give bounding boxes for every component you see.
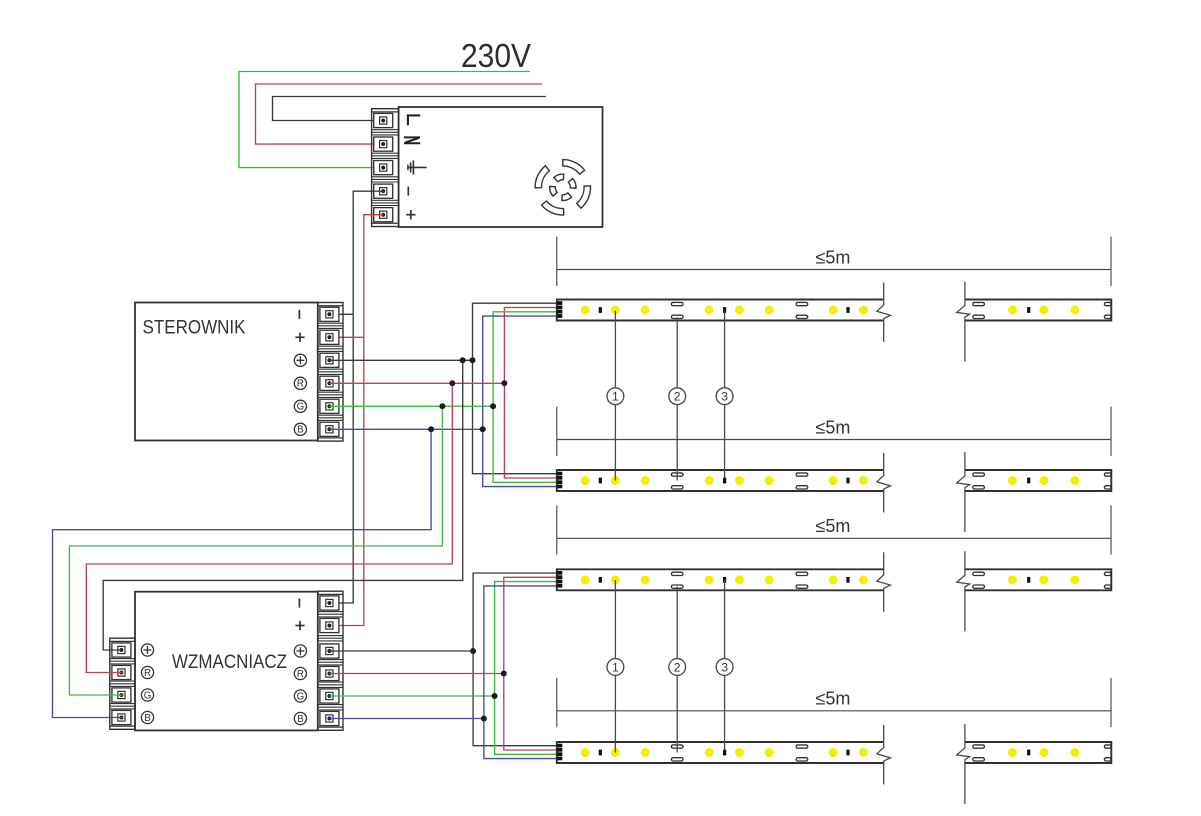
LED strip row 2 LED chip at x=709.2 bbox=[705, 476, 714, 485]
WZMACNIACZ left pin label R bbox=[141, 666, 153, 678]
LED strip row 4 segment 2 LED chip at x=1043.8 bbox=[1039, 748, 1048, 757]
WZMACNIACZ right terminal 6 screw cell bbox=[320, 711, 339, 725]
LED strip row 4 resistor at x=724.6 bbox=[723, 750, 726, 756]
dimension line max 5m for strip row 3 bbox=[557, 537, 1111, 539]
junction G wire dot A bbox=[439, 403, 445, 409]
LED strip row 1 cut point solder pads at x=677.2 bbox=[671, 302, 683, 305]
PSU cooling fan icon bbox=[563, 160, 585, 175]
LED strip row 1 resistor at x=724.6 bbox=[723, 307, 726, 313]
PSU pin label earth ground symbol bbox=[408, 166, 427, 168]
LED strip row 3 LED chip at x=833.2 bbox=[829, 575, 838, 584]
LED strip row 1 LED chip at x=863.4 bbox=[859, 306, 868, 315]
dimension line max 5m for strip row 2 bbox=[557, 439, 1111, 441]
LED strip row 2 segment 2 LED chip at x=1043.8 bbox=[1039, 476, 1048, 485]
LED strip row 3 segment 2 solder pads bbox=[973, 572, 985, 575]
amplifier WZMACNIACZ box bbox=[135, 592, 318, 731]
LED strip row 1 segment 2 LED chip at x=1012.5 bbox=[1008, 306, 1017, 315]
LED strip row 2 segment 2 LED chip at x=1074.8 bbox=[1070, 476, 1079, 485]
svg-text:≤5m: ≤5m bbox=[816, 689, 851, 709]
junction R wire dot A bbox=[449, 380, 455, 386]
svg-text:STEROWNIK: STEROWNIK bbox=[143, 318, 246, 339]
svg-text:G: G bbox=[144, 690, 152, 701]
LED strip row 2 resistor at x=848 bbox=[846, 478, 849, 484]
PSU pin label minus bbox=[407, 187, 409, 196]
svg-text:≤5m: ≤5m bbox=[816, 417, 851, 437]
LED strip row 4 segment 2 outline bbox=[965, 742, 1111, 763]
WZMACNIACZ right terminal block column bbox=[318, 591, 343, 730]
circled number 1 set 2 bbox=[607, 659, 624, 676]
LED strip row 1 LED chip at x=585.2 bbox=[581, 306, 590, 315]
LED strip row 2 segment 2 LED chip at x=1012.5 bbox=[1008, 476, 1017, 485]
WZMACNIACZ right pin label W circled plus bbox=[294, 645, 306, 657]
LED strip row 1 segment 2 end solder pads bbox=[1104, 302, 1111, 305]
wire PE green from 230V to PSU ground terminal bbox=[239, 72, 530, 168]
WZMACNIACZ right terminal 1 screw cell bbox=[320, 596, 339, 610]
LED strip row 2 resistor at x=724.6 bbox=[723, 478, 726, 484]
WZMACNIACZ right pin label minus bbox=[298, 599, 300, 608]
svg-text:≤5m: ≤5m bbox=[816, 247, 851, 267]
LED strip row 4 segment 2 resistor bbox=[1027, 750, 1030, 756]
LED strip row 1 LED chip at x=739.4 bbox=[735, 306, 744, 315]
junction W wire dot B bbox=[470, 357, 476, 363]
WZMACNIACZ left terminal block column bbox=[110, 638, 135, 729]
WZMACNIACZ left terminal 1 screw cell bbox=[112, 643, 131, 657]
LED strip row 3 LED chip at x=615.4 bbox=[611, 575, 620, 584]
LED strip row 1 input solder connector pads bbox=[557, 301, 562, 305]
STEROWNIK terminal 4 screw cell bbox=[320, 376, 339, 390]
WZMACNIACZ right pin label R bbox=[294, 667, 306, 679]
PSU terminal 2 screw cell bbox=[374, 137, 393, 151]
LED strip row 1 break symbol end of segment 1 bbox=[877, 283, 891, 343]
LED strip row 2 LED chip at x=833.2 bbox=[829, 476, 838, 485]
PSU terminal 4 screw cell bbox=[374, 184, 393, 198]
wire G green STEROWNIK to WZMACNIACZ input bbox=[69, 406, 442, 695]
wire B blue WZMACNIACZ output to strips 3 and 4 bbox=[329, 718, 484, 720]
STEROWNIK pin label plus bbox=[295, 336, 304, 338]
LED strip row 4 resistor at x=600.3 bbox=[599, 750, 602, 756]
LED strip row 1 segment 2 solder pads bbox=[973, 302, 985, 305]
wire N red from 230V to PSU terminal N bbox=[256, 84, 543, 144]
LED strip row 4 LED chip at x=709.2 bbox=[705, 748, 714, 757]
svg-text:≤5m: ≤5m bbox=[816, 516, 851, 536]
LED strip row 1 segment 2 resistor bbox=[1027, 307, 1030, 313]
PSU terminal 5 screw cell bbox=[374, 208, 393, 222]
LED strip row 3 LED chip at x=645.2 bbox=[641, 575, 650, 584]
LED strip row 2 LED chip at x=863.4 bbox=[859, 476, 868, 485]
STEROWNIK terminal 1 screw cell bbox=[320, 307, 339, 321]
LED strip row 2 break symbol end of segment 1 bbox=[877, 453, 891, 513]
LED strip row 2 cut point solder pads at x=801.9 bbox=[796, 473, 808, 476]
LED strip row 4 break symbol start of segment 2 bbox=[957, 724, 970, 804]
LED strip row 4 cut point solder pads at x=801.9 bbox=[796, 745, 808, 748]
LED strip row 2 segment 2 end solder pads bbox=[1104, 473, 1111, 476]
WZMACNIACZ left pin label B bbox=[141, 711, 153, 723]
LED strip row 4 LED chip at x=769.2 bbox=[765, 748, 774, 757]
LED strip row 4 segment 2 LED chip at x=1012.5 bbox=[1008, 748, 1017, 757]
LED strip row 1 segment 2 LED chip at x=1043.8 bbox=[1039, 306, 1048, 315]
LED strip row 3 input solder connector pads bbox=[557, 571, 562, 575]
PSU pin label N bbox=[404, 136, 420, 138]
power supply unit box bbox=[399, 107, 603, 227]
svg-text:B: B bbox=[144, 713, 151, 724]
LED strip row 1 LED chip at x=769.2 bbox=[765, 306, 774, 315]
dimension line max 5m for strip row 1 bbox=[557, 269, 1111, 271]
LED strip row 2 LED chip at x=585.2 bbox=[581, 476, 590, 485]
wire L black from 230V to PSU terminal L bbox=[273, 97, 547, 121]
svg-text:WZMACNIACZ: WZMACNIACZ bbox=[172, 652, 287, 673]
LED strip row 3 resistor at x=724.6 bbox=[723, 577, 726, 583]
wire W black WZMACNIACZ output to strips 3 and 4 bbox=[329, 650, 473, 652]
wire R red STEROWNIK output to strips 1 and 2 bbox=[329, 382, 504, 384]
LED strip row 4 segment 1 outline bbox=[557, 742, 884, 763]
LED strip row 3 break symbol end of segment 1 bbox=[877, 552, 891, 612]
LED strip row 1 segment 2 LED chip at x=1074.8 bbox=[1070, 306, 1079, 315]
LED strip row 2 LED chip at x=615.4 bbox=[611, 476, 620, 485]
STEROWNIK pin label R bbox=[294, 377, 306, 389]
svg-text:G: G bbox=[297, 691, 305, 702]
LED strip row 1 LED chip at x=833.2 bbox=[829, 306, 838, 315]
WZMACNIACZ right pin label B bbox=[294, 712, 306, 724]
LED strip row 2 LED chip at x=645.2 bbox=[641, 476, 650, 485]
svg-text:1: 1 bbox=[612, 660, 619, 674]
callout line 2 set 1 bbox=[676, 317, 678, 480]
LED strip row 2 LED chip at x=769.2 bbox=[765, 476, 774, 485]
LED strip row 2 segment 1 outline bbox=[557, 470, 884, 491]
LED strip row 1 LED chip at x=709.2 bbox=[705, 306, 714, 315]
wire G green STEROWNIK output to strips 1 and 2 bbox=[329, 405, 493, 407]
STEROWNIK terminal 3 screw cell bbox=[320, 353, 339, 367]
LED strip row 1 segment 1 outline bbox=[557, 300, 884, 321]
LED strip row 4 segment 2 end solder pads bbox=[1104, 745, 1111, 748]
wire minus black PSU to STEROWNIK and WZMACNIACZ bbox=[329, 191, 383, 603]
LED strip row 3 segment 2 LED chip at x=1043.8 bbox=[1039, 575, 1048, 584]
wire W black STEROWNIK to WZMACNIACZ input bbox=[103, 360, 463, 650]
callout line 1 set 1 bbox=[614, 311, 616, 481]
circled number 2 set 1 bbox=[669, 388, 686, 405]
svg-text:230V: 230V bbox=[461, 37, 531, 74]
STEROWNIK terminal 5 screw cell bbox=[320, 399, 339, 413]
LED strip row 3 segment 2 end solder pads bbox=[1104, 572, 1111, 575]
svg-text:2: 2 bbox=[674, 390, 681, 404]
WZMACNIACZ left terminal 3 screw cell bbox=[112, 688, 131, 702]
circled number 3 set 1 bbox=[716, 388, 733, 405]
wire W black STEROWNIK output to strips 1 and 2 bbox=[329, 359, 472, 361]
junction R wire dot C bbox=[501, 671, 507, 677]
junction B wire dot C bbox=[481, 716, 487, 722]
STEROWNIK pin label G bbox=[294, 400, 306, 412]
junction W wire dot A bbox=[460, 357, 466, 363]
svg-text:B: B bbox=[297, 425, 304, 436]
LED strip row 3 segment 2 LED chip at x=1012.5 bbox=[1008, 575, 1017, 584]
svg-text:R: R bbox=[144, 668, 151, 679]
wire B blue STEROWNIK output to strips 1 and 2 bbox=[329, 428, 483, 430]
LED strip row 3 LED chip at x=863.4 bbox=[859, 575, 868, 584]
PSU pin label plus bbox=[406, 214, 415, 216]
LED strip row 1 LED chip at x=645.2 bbox=[641, 306, 650, 315]
LED strip row 1 resistor at x=848 bbox=[846, 307, 849, 313]
LED strip row 4 LED chip at x=739.4 bbox=[735, 748, 744, 757]
LED strip row 4 LED chip at x=833.2 bbox=[829, 748, 838, 757]
LED strip row 3 LED chip at x=585.2 bbox=[581, 575, 590, 584]
junction B wire dot B bbox=[480, 426, 486, 432]
svg-text:G: G bbox=[297, 402, 305, 413]
LED strip row 3 segment 2 outline bbox=[965, 569, 1111, 590]
circled number 1 set 1 bbox=[607, 388, 624, 405]
callout line 1 set 2 bbox=[614, 580, 616, 753]
LED strip row 1 resistor at x=600.3 bbox=[599, 307, 602, 313]
LED strip row 3 cut point solder pads at x=677.2 bbox=[671, 572, 683, 575]
LED strip row 4 LED chip at x=863.4 bbox=[859, 748, 868, 757]
circled number 3 set 2 bbox=[716, 659, 733, 676]
wire R red STEROWNIK to WZMACNIACZ input bbox=[86, 383, 452, 672]
WZMACNIACZ right terminal 2 screw cell bbox=[320, 618, 339, 632]
LED strip row 3 LED chip at x=709.2 bbox=[705, 575, 714, 584]
junction G wire dot B bbox=[490, 403, 496, 409]
STEROWNIK terminal 2 screw cell bbox=[320, 330, 339, 344]
STEROWNIK pin label minus bbox=[298, 310, 300, 319]
junction R wire dot B bbox=[501, 380, 507, 386]
LED strip row 4 break symbol end of segment 1 bbox=[877, 725, 891, 785]
junction G wire dot C bbox=[492, 693, 498, 699]
STEROWNIK pin label W circled plus bbox=[294, 354, 306, 366]
WZMACNIACZ left terminal 4 screw cell bbox=[112, 710, 131, 724]
svg-text:1: 1 bbox=[612, 390, 619, 404]
junction B wire dot A bbox=[428, 426, 434, 432]
LED strip row 1 break symbol start of segment 2 bbox=[957, 282, 970, 362]
PSU terminal 1 screw cell bbox=[374, 113, 393, 127]
PSU terminal 3 screw cell bbox=[374, 161, 393, 175]
WZMACNIACZ right pin label G bbox=[294, 690, 306, 702]
callout line 2 set 2 bbox=[676, 587, 678, 753]
WZMACNIACZ left pin label G bbox=[141, 689, 153, 701]
LED strip row 4 cut point solder pads at x=677.2 bbox=[671, 745, 683, 748]
LED strip row 2 segment 2 resistor bbox=[1027, 478, 1030, 484]
LED strip row 3 resistor at x=600.3 bbox=[599, 577, 602, 583]
LED strip row 3 LED chip at x=769.2 bbox=[765, 575, 774, 584]
LED strip row 2 cut point solder pads at x=677.2 bbox=[671, 473, 683, 476]
WZMACNIACZ right pin label plus bbox=[295, 625, 304, 627]
LED strip row 1 LED chip at x=615.4 bbox=[611, 306, 620, 315]
LED strip row 4 resistor at x=848 bbox=[846, 750, 849, 756]
LED strip row 3 segment 1 outline bbox=[557, 569, 884, 590]
dimension line max 5m for strip row 4 bbox=[557, 710, 1111, 712]
LED strip row 2 resistor at x=600.3 bbox=[599, 478, 602, 484]
svg-text:3: 3 bbox=[721, 660, 728, 674]
LED strip row 2 segment 2 solder pads bbox=[973, 473, 985, 476]
LED strip row 4 LED chip at x=615.4 bbox=[611, 748, 620, 757]
LED strip row 4 input solder connector pads bbox=[557, 744, 562, 748]
STEROWNIK terminal 6 screw cell bbox=[320, 422, 339, 436]
LED strip row 2 LED chip at x=739.4 bbox=[735, 476, 744, 485]
circled number 2 set 2 bbox=[669, 659, 686, 676]
LED strip row 4 LED chip at x=585.2 bbox=[581, 748, 590, 757]
LED strip row 4 LED chip at x=645.2 bbox=[641, 748, 650, 757]
svg-text:R: R bbox=[297, 669, 304, 680]
WZMACNIACZ right terminal 4 screw cell bbox=[320, 666, 339, 680]
WZMACNIACZ left pin label W circled plus bbox=[141, 644, 153, 656]
LED strip row 3 segment 2 resistor bbox=[1027, 577, 1030, 583]
LED strip row 1 segment 2 outline bbox=[965, 300, 1111, 321]
LED strip row 2 input solder connector pads bbox=[557, 472, 562, 476]
callout line 3 set 2 bbox=[724, 580, 726, 750]
LED strip row 3 LED chip at x=739.4 bbox=[735, 575, 744, 584]
LED strip row 3 resistor at x=848 bbox=[846, 577, 849, 583]
STEROWNIK pin label B bbox=[294, 423, 306, 435]
junction W wire dot C bbox=[470, 648, 476, 654]
WZMACNIACZ right terminal 5 screw cell bbox=[320, 689, 339, 703]
wire B blue STEROWNIK to WZMACNIACZ input bbox=[53, 429, 432, 717]
LED strip row 2 break symbol start of segment 2 bbox=[957, 452, 970, 532]
LED strip row 4 segment 2 LED chip at x=1074.8 bbox=[1070, 748, 1079, 757]
LED strip row 3 cut point solder pads at x=801.9 bbox=[796, 572, 808, 575]
LED strip row 3 break symbol start of segment 2 bbox=[957, 551, 970, 631]
LED strip row 4 segment 2 solder pads bbox=[973, 745, 985, 748]
WZMACNIACZ right terminal 3 screw cell bbox=[320, 644, 339, 658]
svg-text:B: B bbox=[297, 714, 304, 725]
STEROWNIK terminal block column bbox=[318, 303, 343, 442]
PSU pin label L bbox=[408, 115, 420, 125]
controller STEROWNIK box bbox=[135, 303, 318, 441]
svg-text:3: 3 bbox=[721, 390, 728, 404]
svg-text:2: 2 bbox=[674, 660, 681, 674]
PSU terminal block column bbox=[372, 109, 399, 227]
wire R red WZMACNIACZ output to strips 3 and 4 bbox=[329, 673, 504, 675]
LED strip row 1 cut point solder pads at x=801.9 bbox=[796, 302, 808, 305]
svg-text:R: R bbox=[297, 379, 304, 390]
callout line 3 set 1 bbox=[724, 311, 726, 478]
WZMACNIACZ left terminal 2 screw cell bbox=[112, 665, 131, 679]
LED strip row 3 segment 2 LED chip at x=1074.8 bbox=[1070, 575, 1079, 584]
wire G green WZMACNIACZ output to strips 3 and 4 bbox=[329, 695, 494, 697]
LED strip row 2 segment 2 outline bbox=[965, 470, 1111, 491]
wire plus red PSU to STEROWNIK and WZMACNIACZ bbox=[329, 215, 383, 626]
